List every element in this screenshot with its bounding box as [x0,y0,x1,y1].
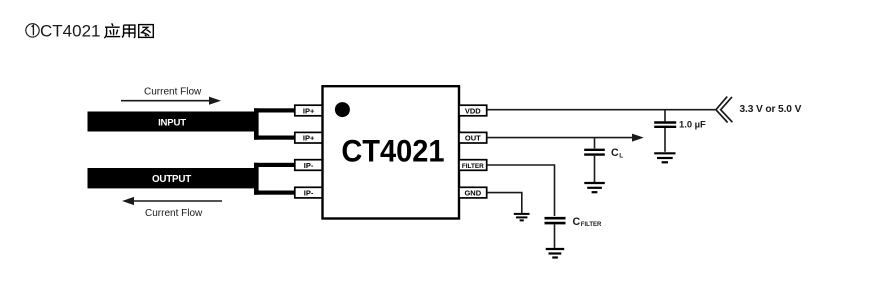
pin IP- 2 [295,187,323,198]
pin FILTER [459,160,487,171]
output fork wire upper [254,163,295,167]
svg-text:CT4021: CT4021 [40,22,100,41]
input fork wire upper [254,108,295,112]
svg-text:INPUT: INPUT [158,117,186,128]
power source chevron 3.3/5.0V [716,97,733,123]
title glyph ying [104,23,120,38]
wire FILTER [487,165,555,216]
wire VDD [487,109,716,111]
ground (CFILTER) [546,249,565,258]
title glyph tu [139,25,154,38]
current flow arrow bottom [134,200,222,202]
pin IP- 1 [295,160,323,171]
ground (1.0uF) [654,153,675,162]
svg-text:IP-: IP- [304,189,314,198]
svg-text:1.0 µF: 1.0 µF [679,119,706,130]
IC pin-1 dot [335,102,350,117]
input fork vertical [254,108,259,139]
pin IP+ 1 [295,105,323,116]
svg-text:FILTER: FILTER [581,222,602,228]
OUTPUT busbar [88,168,255,188]
wire GND [487,193,522,213]
svg-text:IP-: IP- [304,161,314,170]
ground (CL) [584,183,605,192]
svg-text:IP+: IP+ [303,134,315,143]
svg-text:OUTPUT: OUTPUT [152,174,191,185]
capacitor C 1.0uF plates [654,121,676,123]
svg-text:VDD: VDD [465,106,481,115]
input fork wire lower [254,136,295,140]
pin GND [459,187,487,198]
capacitor CFILTER plates [545,217,566,220]
title circled-1 [26,24,39,37]
title glyph yong [122,25,135,37]
pin VDD [459,105,487,116]
output fork wire lower [254,191,295,195]
svg-text:C: C [573,216,581,228]
capacitor CL stub [594,138,596,149]
svg-text:L: L [619,153,623,160]
IC U1 CT4021 body [323,86,460,218]
current flow arrow top [121,100,211,102]
svg-text:3.3 V or 5.0 V: 3.3 V or 5.0 V [740,104,802,115]
svg-text:CT4021: CT4021 [341,133,444,169]
svg-text:Current Flow: Current Flow [145,208,203,219]
wire OUT with arrow [487,137,633,139]
capacitor C 1.0uF stub [664,110,666,122]
pin IP+ 2 [295,132,323,143]
pin OUT [459,132,487,143]
svg-text:FILTER: FILTER [462,163,484,170]
INPUT busbar [88,112,255,132]
svg-text:GND: GND [464,189,481,198]
svg-text:OUT: OUT [465,134,481,143]
svg-text:C: C [611,147,619,159]
capacitor CL plates [584,149,605,151]
svg-text:Current Flow: Current Flow [144,87,202,98]
ground (GND pin) [514,214,530,221]
output fork vertical [254,163,259,195]
svg-text:IP+: IP+ [303,106,315,115]
